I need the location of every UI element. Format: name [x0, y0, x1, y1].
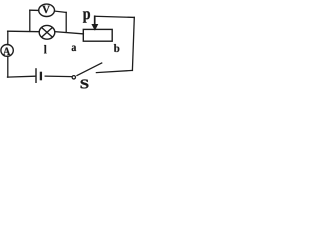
voltmeter V1 circle	[39, 4, 55, 16]
lamp label l	[44, 45, 47, 53]
battery long plate	[35, 68, 37, 83]
rheostat wiper arrowhead	[91, 24, 98, 31]
rheostat R1 resistor box	[83, 29, 112, 41]
terminal label b	[114, 44, 120, 52]
wire wiper horizontal	[95, 16, 135, 17]
voltmeter dial letter V	[42, 6, 50, 13]
wire wiper vertical	[94, 16, 96, 25]
wire lamp level right to rheostat	[55, 32, 83, 34]
wire lamp level left	[8, 30, 40, 33]
switch blade	[76, 63, 102, 76]
wire voltmeter branch right vertical	[65, 12, 67, 32]
switch S1 pivot circle	[72, 76, 75, 79]
wire battery to switch	[45, 75, 71, 78]
wire top-left horizontal to voltmeter	[30, 9, 39, 11]
slider label p	[83, 11, 90, 22]
wire left vertical above ammeter	[7, 31, 9, 44]
wire bottom-left to battery	[8, 75, 35, 78]
terminal label a	[72, 46, 77, 52]
wire left vertical below ammeter	[7, 56, 9, 77]
wire switch right horizontal	[96, 70, 132, 72]
wire voltmeter right to corner	[55, 11, 67, 12]
ammeter A1 circle	[1, 45, 13, 57]
battery short plate	[40, 72, 42, 81]
ammeter dial letter A	[3, 48, 10, 55]
switch label S	[81, 80, 89, 89]
lamp L1 circle with cross	[39, 25, 55, 39]
wire voltmeter branch left vertical	[29, 10, 31, 31]
wire right edge vertical	[132, 17, 134, 70]
